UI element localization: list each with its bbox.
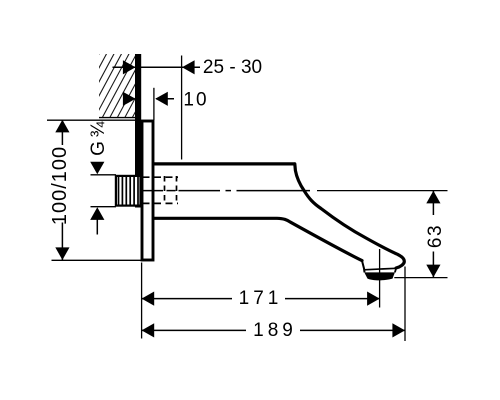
hidden connector dashed left vertical xyxy=(164,176,166,205)
spout body xyxy=(152,166,404,269)
dimension 63 bottom arrow xyxy=(426,265,440,278)
hidden connector dashed top line xyxy=(143,176,179,178)
dimension 63 top arrow xyxy=(426,191,440,204)
spout top edge xyxy=(152,162,295,165)
dimension 10 line xyxy=(156,98,174,100)
ext line 10 right xyxy=(153,88,155,120)
svg-text:63: 63 xyxy=(425,224,446,248)
ext line 63 top xyxy=(317,190,448,192)
wall hatch bottom edge xyxy=(99,117,141,119)
hidden connector dashed right vertical xyxy=(176,176,178,205)
ext line 171 right xyxy=(379,249,381,308)
spout top-right profile curve xyxy=(295,164,405,268)
ext line 63 bottom xyxy=(394,277,447,279)
escutcheon plate xyxy=(142,121,153,260)
ext line 171-189 left xyxy=(141,263,143,339)
spout bottom edge xyxy=(152,218,362,260)
nipple thread lines xyxy=(119,176,139,207)
dimension 189 left arrow xyxy=(142,323,155,337)
dimension 171 left arrow xyxy=(142,292,155,306)
dimension 189 line xyxy=(142,329,405,331)
aerator left side xyxy=(362,261,365,273)
dimension 171 right arrow xyxy=(367,292,380,306)
dimension 25-30 line xyxy=(113,66,201,68)
dimension 100/100 line top xyxy=(61,120,63,145)
aerator ring black band xyxy=(364,272,395,280)
dimension 10 left arrow xyxy=(123,92,136,106)
svg-text:171: 171 xyxy=(239,288,283,309)
ext line 189 right xyxy=(404,267,406,342)
dimension 25-30 left arrow xyxy=(123,60,136,74)
G3/4 top extension line xyxy=(91,174,117,176)
dimension G3/4 bottom arrow xyxy=(90,207,104,220)
dimension G3/4 top arrow xyxy=(90,162,104,175)
svg-text:25 - 30: 25 - 30 xyxy=(203,57,262,78)
svg-text:G ¾: G ¾ xyxy=(88,120,109,156)
dimension 63 line top xyxy=(432,191,434,215)
svg-text:10: 10 xyxy=(183,90,208,111)
hidden connector dashed bottom line xyxy=(143,202,179,204)
dimension 25-30 right arrow xyxy=(182,60,195,74)
dimension 100/100 line bottom xyxy=(61,223,63,261)
dimension 100/100 bottom arrow xyxy=(55,247,69,260)
aerator right side xyxy=(395,268,396,272)
aerator seam line xyxy=(364,268,396,270)
centerline dash-dot xyxy=(142,190,311,192)
svg-text:100/100: 100/100 xyxy=(49,146,71,225)
dimension 171 line xyxy=(142,298,380,300)
wall face line xyxy=(135,54,141,208)
G3/4 bottom extension line xyxy=(91,206,117,208)
ext line 25-30 right xyxy=(181,56,183,160)
dimension 189 right arrow xyxy=(392,323,405,337)
wall hatching xyxy=(56,52,183,120)
dimension 10 right arrow xyxy=(155,92,168,106)
threaded nipple G3/4 xyxy=(116,176,141,206)
svg-text:189: 189 xyxy=(253,320,297,341)
ext line 100/100 top xyxy=(47,119,140,121)
dimension 63 line bottom xyxy=(432,252,434,278)
ext line 100/100 bottom xyxy=(52,259,142,261)
dimension 100/100 top arrow xyxy=(55,120,69,133)
dimension G3/4 bottom tail xyxy=(96,219,98,235)
